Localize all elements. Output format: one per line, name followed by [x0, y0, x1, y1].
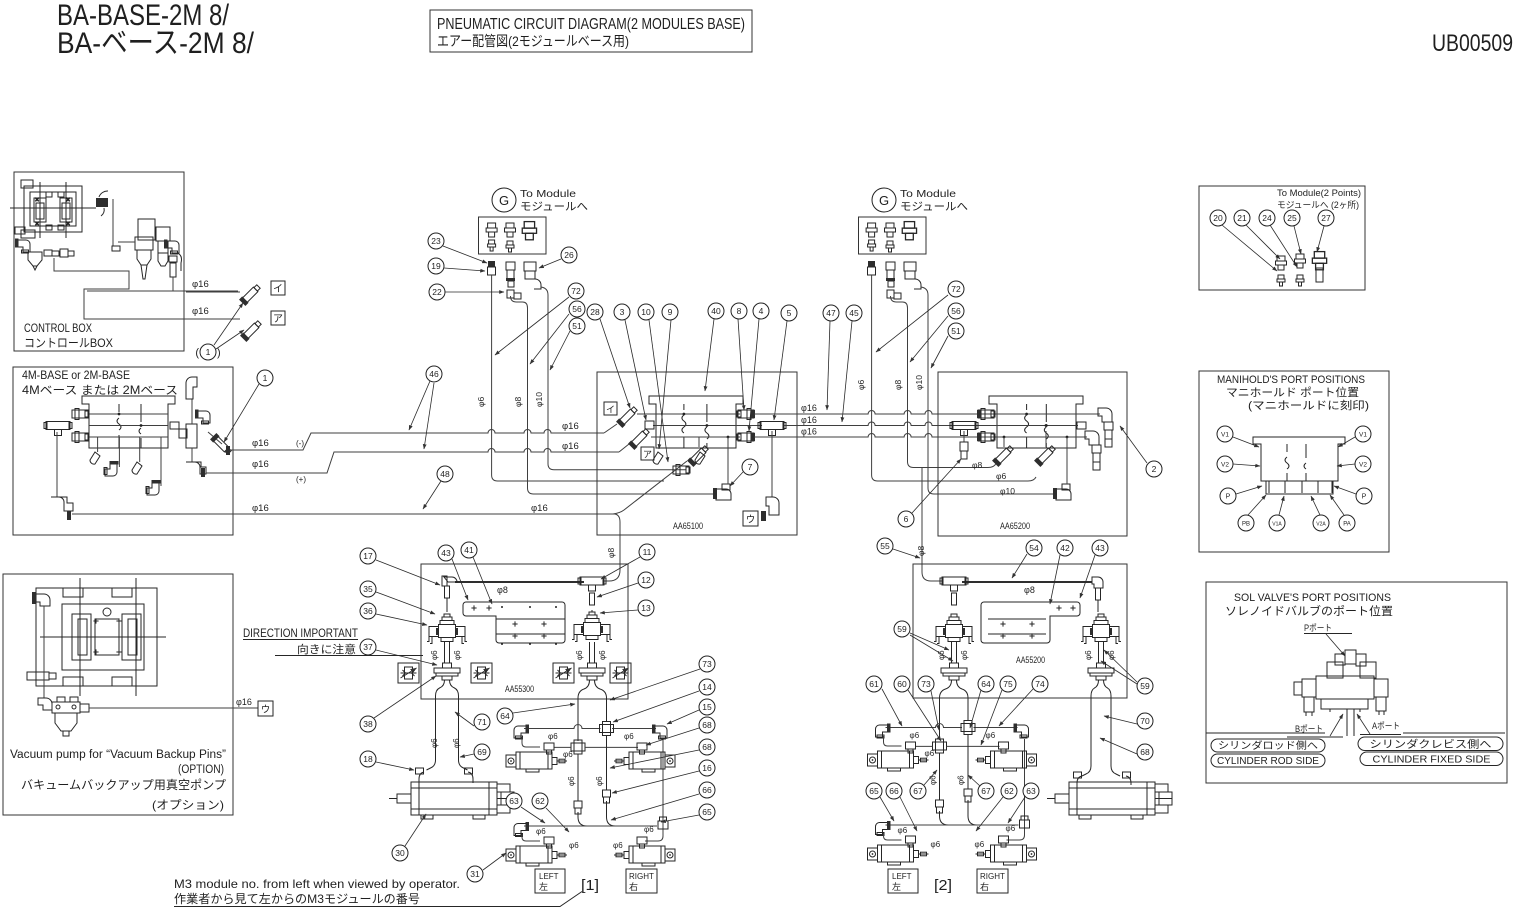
- vacuum phi16 line to link U: [89, 707, 258, 709]
- leader line: [931, 691, 939, 730]
- port circle P: [1356, 488, 1372, 504]
- svg-text:9: 9: [668, 307, 673, 317]
- svg-text:×: ×: [35, 221, 39, 228]
- control box small fittings row: [44, 250, 52, 256]
- svg-text:φ16: φ16: [801, 427, 817, 437]
- vacuum drop from tee: [771, 431, 773, 497]
- module1 RIGHT box: [626, 869, 657, 893]
- svg-text:V1: V1: [1221, 432, 1229, 439]
- 4M-BASE module drop 2: [118, 437, 120, 467]
- separator line left: [1206, 732, 1325, 734]
- svg-text:φ10: φ10: [534, 392, 544, 407]
- balloon 4: [753, 303, 769, 319]
- svg-text:PB: PB: [1242, 522, 1250, 528]
- leader line: [601, 557, 640, 579]
- svg-text:46: 46: [429, 369, 439, 379]
- 4M-BASE right riser: [191, 399, 193, 424]
- leader line: [1279, 496, 1284, 515]
- leader line: [214, 303, 243, 345]
- G trio fitting r3: [902, 222, 916, 240]
- svg-text:1: 1: [206, 347, 211, 357]
- svg-text:イ: イ: [273, 284, 283, 295]
- leader line: [424, 383, 434, 449]
- svg-text:P: P: [1226, 494, 1231, 501]
- fitting 22 lower elbow: [507, 290, 514, 298]
- module1 LEFT box: [535, 869, 565, 893]
- balloon 63: [1023, 783, 1039, 799]
- SV1 output pipes down: [427, 680, 445, 770]
- link box U manifold side: [743, 511, 758, 526]
- 4M-BASE bottom output elbow: [51, 497, 73, 511]
- svg-text:LEFT: LEFT: [539, 872, 559, 881]
- leader line: [976, 797, 1003, 831]
- connector ref box i (manifold): [604, 402, 617, 415]
- fitting right R2: [737, 432, 754, 443]
- svg-text:向きに注意: 向きに注意: [297, 642, 356, 656]
- svg-text:V2: V2: [1359, 462, 1367, 469]
- control box pilot valve flag: [96, 198, 108, 207]
- svg-text:φ6: φ6: [929, 775, 938, 785]
- balloon 16: [699, 760, 715, 776]
- leader line: [1104, 650, 1137, 682]
- svg-text:68: 68: [1140, 747, 1150, 757]
- cross fitting upper module2: [961, 721, 975, 735]
- balloon 66: [699, 782, 715, 798]
- phi6 riser left module: [492, 275, 664, 481]
- svg-text:φ8: φ8: [972, 460, 983, 470]
- manifold port positions box: [1199, 371, 1389, 552]
- vacuum inlet elbow: [34, 594, 50, 606]
- big cylinder module2 port elbows: [1077, 776, 1082, 785]
- balloon 30: [392, 845, 408, 861]
- svg-text:右: 右: [980, 881, 989, 892]
- svg-text:21: 21: [1237, 213, 1247, 223]
- svg-text:14: 14: [702, 682, 712, 692]
- M3 note underline: [174, 892, 582, 907]
- svg-text:φ6: φ6: [996, 471, 1007, 481]
- port diagram squiggles: [1285, 444, 1289, 481]
- mounting plate module2: [981, 602, 1080, 643]
- SV2 down pipes: [589, 642, 591, 663]
- stadium label シリンダロッド側へ: [1211, 739, 1325, 752]
- svg-text:φ6: φ6: [910, 731, 920, 740]
- 4M-BASE plus output riser: [191, 448, 193, 462]
- leader line: [1317, 226, 1324, 252]
- control box machine block: [10, 180, 96, 238]
- port diagram tick marks: [1268, 481, 1270, 493]
- phi16 plus diagonal to elbow a: [619, 444, 629, 452]
- svg-text:×: ×: [66, 221, 70, 228]
- svg-text:27: 27: [1321, 213, 1331, 223]
- svg-text:73: 73: [921, 679, 931, 689]
- sol valve drawing: [1294, 650, 1388, 716]
- cross fitting upper module1: [600, 722, 614, 736]
- svg-text:φ6: φ6: [986, 731, 996, 740]
- svg-text:13: 13: [641, 603, 651, 613]
- 4M-BASE box outline: [13, 367, 233, 535]
- svg-text:64: 64: [981, 679, 991, 689]
- svg-text:φ16: φ16: [252, 438, 269, 449]
- leader line: [912, 459, 961, 513]
- SV1 speed controller stack 38: [434, 663, 460, 680]
- stadium label CYLINDER FIXED SIDE: [1360, 752, 1503, 766]
- leader line: [842, 321, 852, 422]
- svg-text:PA: PA: [1343, 522, 1351, 528]
- left end elbow upper module1: [514, 725, 529, 740]
- G trio fitting 2: [505, 223, 516, 237]
- right end elbow upper module1: [652, 725, 667, 740]
- svg-text:To Module: To Module: [520, 188, 576, 200]
- cylinder UL module2: [868, 751, 929, 771]
- svg-text:36: 36: [363, 606, 373, 616]
- G trio fitting r1: [866, 223, 877, 237]
- svg-text:51: 51: [951, 326, 961, 336]
- svg-text:φ6: φ6: [595, 776, 604, 786]
- balloon 35: [360, 581, 376, 597]
- leader line: [774, 321, 787, 420]
- balloon 22: [429, 284, 445, 300]
- leader line: [600, 610, 638, 613]
- svg-text:3: 3: [620, 307, 625, 317]
- leader line: [1330, 714, 1343, 736]
- svg-text:24: 24: [1262, 213, 1272, 223]
- control output elbow 2: [240, 319, 263, 342]
- leader line: [405, 814, 426, 846]
- leader line: [483, 853, 506, 870]
- 4M-BASE module drop 4: [160, 437, 162, 486]
- SV3 output pipes to quad: [940, 680, 952, 714]
- svg-text:AA65200: AA65200: [1000, 521, 1030, 532]
- AA65200 manifold squiggles: [1025, 404, 1029, 448]
- svg-text:74: 74: [1035, 679, 1045, 689]
- leader line: [705, 319, 714, 391]
- svg-text:70: 70: [1140, 716, 1150, 726]
- balloon 12: [638, 572, 654, 588]
- svg-text:φ6: φ6: [937, 650, 946, 660]
- svg-text:23: 23: [431, 236, 441, 246]
- phi16 minus line: [231, 430, 604, 450]
- svg-text:ウ: ウ: [746, 515, 756, 526]
- svg-text:φ8: φ8: [606, 547, 616, 558]
- leader line: [924, 770, 937, 785]
- svg-text:(OPTION): (OPTION): [178, 764, 224, 776]
- leader line: [1101, 661, 1137, 684]
- svg-text:V2: V2: [1221, 462, 1229, 469]
- svg-text:47: 47: [826, 308, 836, 318]
- svg-text:φ16: φ16: [562, 441, 579, 452]
- left end elbow lower module1: [514, 822, 529, 837]
- svg-text:BA-ベース-2M 8/: BA-ベース-2M 8/: [57, 27, 255, 60]
- 4M-BASE module drop 3: [139, 437, 141, 462]
- svg-text:25: 25: [1287, 213, 1297, 223]
- balloon 10: [638, 304, 654, 320]
- leader line: [1050, 555, 1060, 604]
- leader line: [910, 633, 949, 650]
- G fitting box right: [859, 217, 927, 254]
- balloon 28: [587, 304, 603, 320]
- svg-text:ア: ア: [273, 314, 283, 325]
- svg-text:φ16: φ16: [236, 697, 252, 707]
- leader line: [1334, 486, 1356, 494]
- upper distribution line module2: [886, 724, 963, 728]
- AA65200 right elbow bottom: [1085, 431, 1099, 445]
- 2pts fitting 3: [1312, 252, 1326, 270]
- svg-text:54: 54: [1029, 543, 1039, 553]
- svg-text:シリンダロッド側へ: シリンダロッド側へ: [1218, 739, 1318, 752]
- svg-text:MANIHOLD'S PORT POSITIONS: MANIHOLD'S PORT POSITIONS: [1217, 374, 1365, 386]
- svg-text:To Module: To Module: [900, 188, 956, 200]
- svg-text:イ: イ: [606, 405, 615, 415]
- svg-text:66: 66: [889, 786, 899, 796]
- svg-text:59: 59: [1140, 681, 1150, 691]
- control box FRL outlet elbow: [164, 240, 179, 255]
- AA55300 box outline: [421, 564, 628, 699]
- svg-text:φ6: φ6: [957, 775, 966, 785]
- big cylinder 30 port elbows: [419, 772, 424, 783]
- svg-text:φ8: φ8: [893, 379, 903, 390]
- left end elbow lower module2: [876, 821, 891, 836]
- port circle V1: [1217, 426, 1233, 442]
- svg-text:UB00509: UB00509: [1432, 30, 1513, 57]
- balloon 70: [1137, 713, 1153, 729]
- svg-text:φ16: φ16: [801, 415, 817, 425]
- 4M-BASE right tee vertical: [186, 424, 197, 448]
- port circle PB: [1238, 515, 1254, 531]
- svg-text:43: 43: [441, 548, 451, 558]
- svg-text:M3 module no. from left when v: M3 module no. from left when viewed by o…: [174, 877, 460, 891]
- svg-text:30: 30: [395, 848, 405, 858]
- balloon 73: [699, 656, 715, 672]
- vacuum pump elbow: [38, 698, 52, 710]
- leader line: [443, 246, 487, 263]
- 4M-BASE left tee: [44, 422, 72, 436]
- leader line: [1270, 225, 1297, 267]
- svg-text:(: (: [195, 347, 199, 359]
- leader line: [882, 689, 902, 726]
- svg-text:11: 11: [643, 547, 652, 557]
- AA55300 tee 11: [578, 577, 606, 591]
- AA55300 left elbow: [444, 577, 457, 582]
- balloon 61: [866, 676, 882, 692]
- leader line: [546, 808, 569, 832]
- balloon 18: [360, 751, 376, 767]
- balloon 23: [428, 233, 444, 249]
- AA65100 box outline: [597, 372, 797, 535]
- SV4 output pipes down: [1082, 680, 1099, 776]
- leader line: [1294, 226, 1301, 254]
- port circle V2A: [1313, 515, 1329, 531]
- svg-text:φ6: φ6: [567, 776, 576, 786]
- svg-text:φ6: φ6: [575, 650, 584, 660]
- phi8 drop to AA55300: [604, 514, 620, 581]
- svg-text:LEFT: LEFT: [892, 872, 912, 881]
- balloon 37: [360, 639, 376, 655]
- big cylinder module1: [389, 782, 514, 819]
- svg-text:Pポート: Pポート: [1304, 623, 1332, 633]
- cylinder LL module1: [506, 846, 567, 866]
- svg-text:67: 67: [981, 786, 991, 796]
- svg-text:AA55200: AA55200: [1016, 655, 1045, 666]
- svg-text:19: 19: [431, 261, 441, 271]
- sol valve bottom pipes: [1346, 709, 1348, 736]
- fitting 23/19 below G box: [488, 261, 495, 267]
- elbow phi10 riser: [1056, 489, 1071, 500]
- svg-text:60: 60: [897, 679, 907, 689]
- svg-text:75: 75: [1003, 679, 1013, 689]
- control box inlet fitting: [112, 246, 120, 251]
- leader line: [908, 690, 941, 741]
- leader line: [445, 291, 504, 293]
- G balloon left: [492, 188, 516, 212]
- control box wire to valve: [112, 199, 114, 246]
- port circle P: [1220, 488, 1236, 504]
- svg-text:55: 55: [880, 541, 890, 551]
- svg-text:7: 7: [748, 462, 753, 472]
- leader line: [730, 472, 743, 486]
- elbow 7 fitting: [716, 489, 731, 500]
- AA55300 top pipe phi8: [455, 581, 584, 583]
- fitting cluster elbow 2: [695, 452, 705, 464]
- svg-text:V2A: V2A: [1316, 522, 1326, 528]
- svg-text:φ6: φ6: [931, 840, 941, 849]
- 4M-BASE manifold port lines: [89, 413, 168, 415]
- leader line: [893, 549, 920, 558]
- control box outline: [14, 172, 184, 351]
- svg-text:68: 68: [702, 742, 712, 752]
- svg-text:φ16: φ16: [252, 503, 269, 514]
- port circle V1A: [1269, 515, 1285, 531]
- balloon 43: [1092, 540, 1108, 556]
- balloon 75: [1000, 676, 1016, 692]
- balloon 66: [886, 783, 902, 799]
- leader line: [409, 381, 430, 430]
- balloon 65: [699, 804, 715, 820]
- AA65200 pilot drop fitting 6: [963, 431, 965, 442]
- G trio fitting 3: [522, 222, 536, 240]
- balloon 46: [426, 366, 442, 382]
- balloon 60: [894, 676, 910, 692]
- fitting below G right 2: [886, 262, 895, 270]
- svg-text:8: 8: [737, 306, 742, 316]
- 45 elbow to line3: [687, 444, 710, 467]
- 2pts fitting 1: [1276, 256, 1287, 270]
- svg-text:): ): [217, 347, 221, 359]
- svg-text:φ6: φ6: [548, 732, 558, 741]
- leader line: [646, 728, 699, 745]
- leader line: [495, 297, 569, 355]
- leader line: [455, 712, 474, 726]
- svg-text:φ6: φ6: [563, 750, 573, 759]
- AA65200 small fitting right line2: [1077, 422, 1086, 429]
- svg-text:48: 48: [440, 469, 450, 479]
- separator line right: [1403, 732, 1505, 734]
- svg-text:φ16: φ16: [801, 403, 817, 413]
- right end elbow upper module2: [1014, 724, 1029, 739]
- svg-text:モジュールへ: モジュールへ: [520, 201, 588, 213]
- svg-text:41: 41: [464, 545, 474, 555]
- connector ref box a (manifold): [641, 447, 654, 460]
- leader line: [1236, 486, 1262, 494]
- svg-text:作業者から見て左からのM3モジュールの番号: 作業者から見て左からのM3モジュールの番号: [174, 891, 420, 906]
- leader line: [376, 614, 427, 625]
- fitting 35 stem: [446, 598, 448, 612]
- phi6 riser right module: [872, 275, 1036, 481]
- SV2 speed controller stack: [579, 663, 605, 680]
- leader line: [1100, 738, 1137, 754]
- leader line: [1330, 495, 1344, 515]
- stadium label シリンダクレビス側へ: [1358, 737, 1503, 751]
- leader line: [550, 331, 570, 370]
- cylinder UR module2: [976, 751, 1037, 771]
- mounting plate module1: [463, 602, 565, 643]
- svg-text:15: 15: [702, 702, 712, 712]
- leader line: [521, 807, 545, 823]
- leader line: [1246, 225, 1280, 259]
- svg-text:DIRECTION IMPORTANT: DIRECTION IMPORTANT: [243, 626, 359, 640]
- svg-text:φ6: φ6: [452, 738, 461, 748]
- 4M-BASE plus output elbow: [186, 462, 206, 474]
- balloon 71: [474, 714, 490, 730]
- svg-text:(+): (+): [296, 475, 306, 484]
- svg-text:37: 37: [363, 642, 373, 652]
- left drop to UL port module2: [884, 736, 902, 746]
- solenoid valve SV1 top fitting 36: [427, 614, 467, 644]
- left end elbow upper module2: [876, 724, 891, 739]
- svg-text:φ8: φ8: [497, 585, 508, 595]
- port diagram manifold: [1253, 437, 1345, 494]
- lower distribution line module1: [524, 825, 657, 827]
- svg-text:4M-BASE or 2M-BASE: 4M-BASE or 2M-BASE: [22, 370, 130, 382]
- balloon 67: [910, 783, 926, 799]
- balloon 63: [506, 793, 522, 809]
- leader line: [910, 316, 948, 362]
- 4M-BASE module drop 1: [97, 437, 99, 452]
- svg-text:ウ: ウ: [261, 705, 271, 716]
- balloon 64: [497, 708, 513, 724]
- leader line: [1080, 555, 1095, 598]
- leader line: [1012, 554, 1027, 578]
- cylinder LR module1: [614, 846, 675, 866]
- leader line: [1337, 464, 1355, 466]
- svg-text:RIGHT: RIGHT: [980, 872, 1005, 881]
- left drop to UL port module1: [522, 737, 540, 747]
- balloon 51: [948, 323, 964, 339]
- svg-text:[1]: [1]: [581, 877, 599, 894]
- leader line: [661, 815, 699, 822]
- svg-text:26: 26: [564, 250, 574, 260]
- svg-text:16: 16: [702, 763, 712, 773]
- 4M-BASE manifold: [82, 396, 175, 448]
- svg-text:φ6: φ6: [569, 841, 579, 850]
- svg-text:(-): (-): [296, 439, 304, 448]
- svg-text:65: 65: [702, 807, 712, 817]
- svg-text:10: 10: [641, 307, 651, 317]
- AA65200 port line2: [938, 425, 1078, 427]
- svg-text:φ6: φ6: [430, 650, 439, 660]
- svg-text:SOL VALVE'S PORT POSITIONS: SOL VALVE'S PORT POSITIONS: [1234, 592, 1391, 604]
- leader line: [1248, 495, 1266, 515]
- AA65100 port line 2: [653, 425, 762, 427]
- leader line: [610, 669, 700, 700]
- module2 RIGHT box: [977, 869, 1008, 893]
- svg-text:φ6: φ6: [960, 650, 969, 660]
- control box filter bowl: [28, 252, 42, 266]
- cylinder LL module2: [868, 845, 929, 865]
- svg-text:40: 40: [711, 306, 721, 316]
- balloon 1: [257, 370, 273, 386]
- mid pipe left down module1: [577, 754, 579, 801]
- AA65200 box outline: [938, 372, 1127, 536]
